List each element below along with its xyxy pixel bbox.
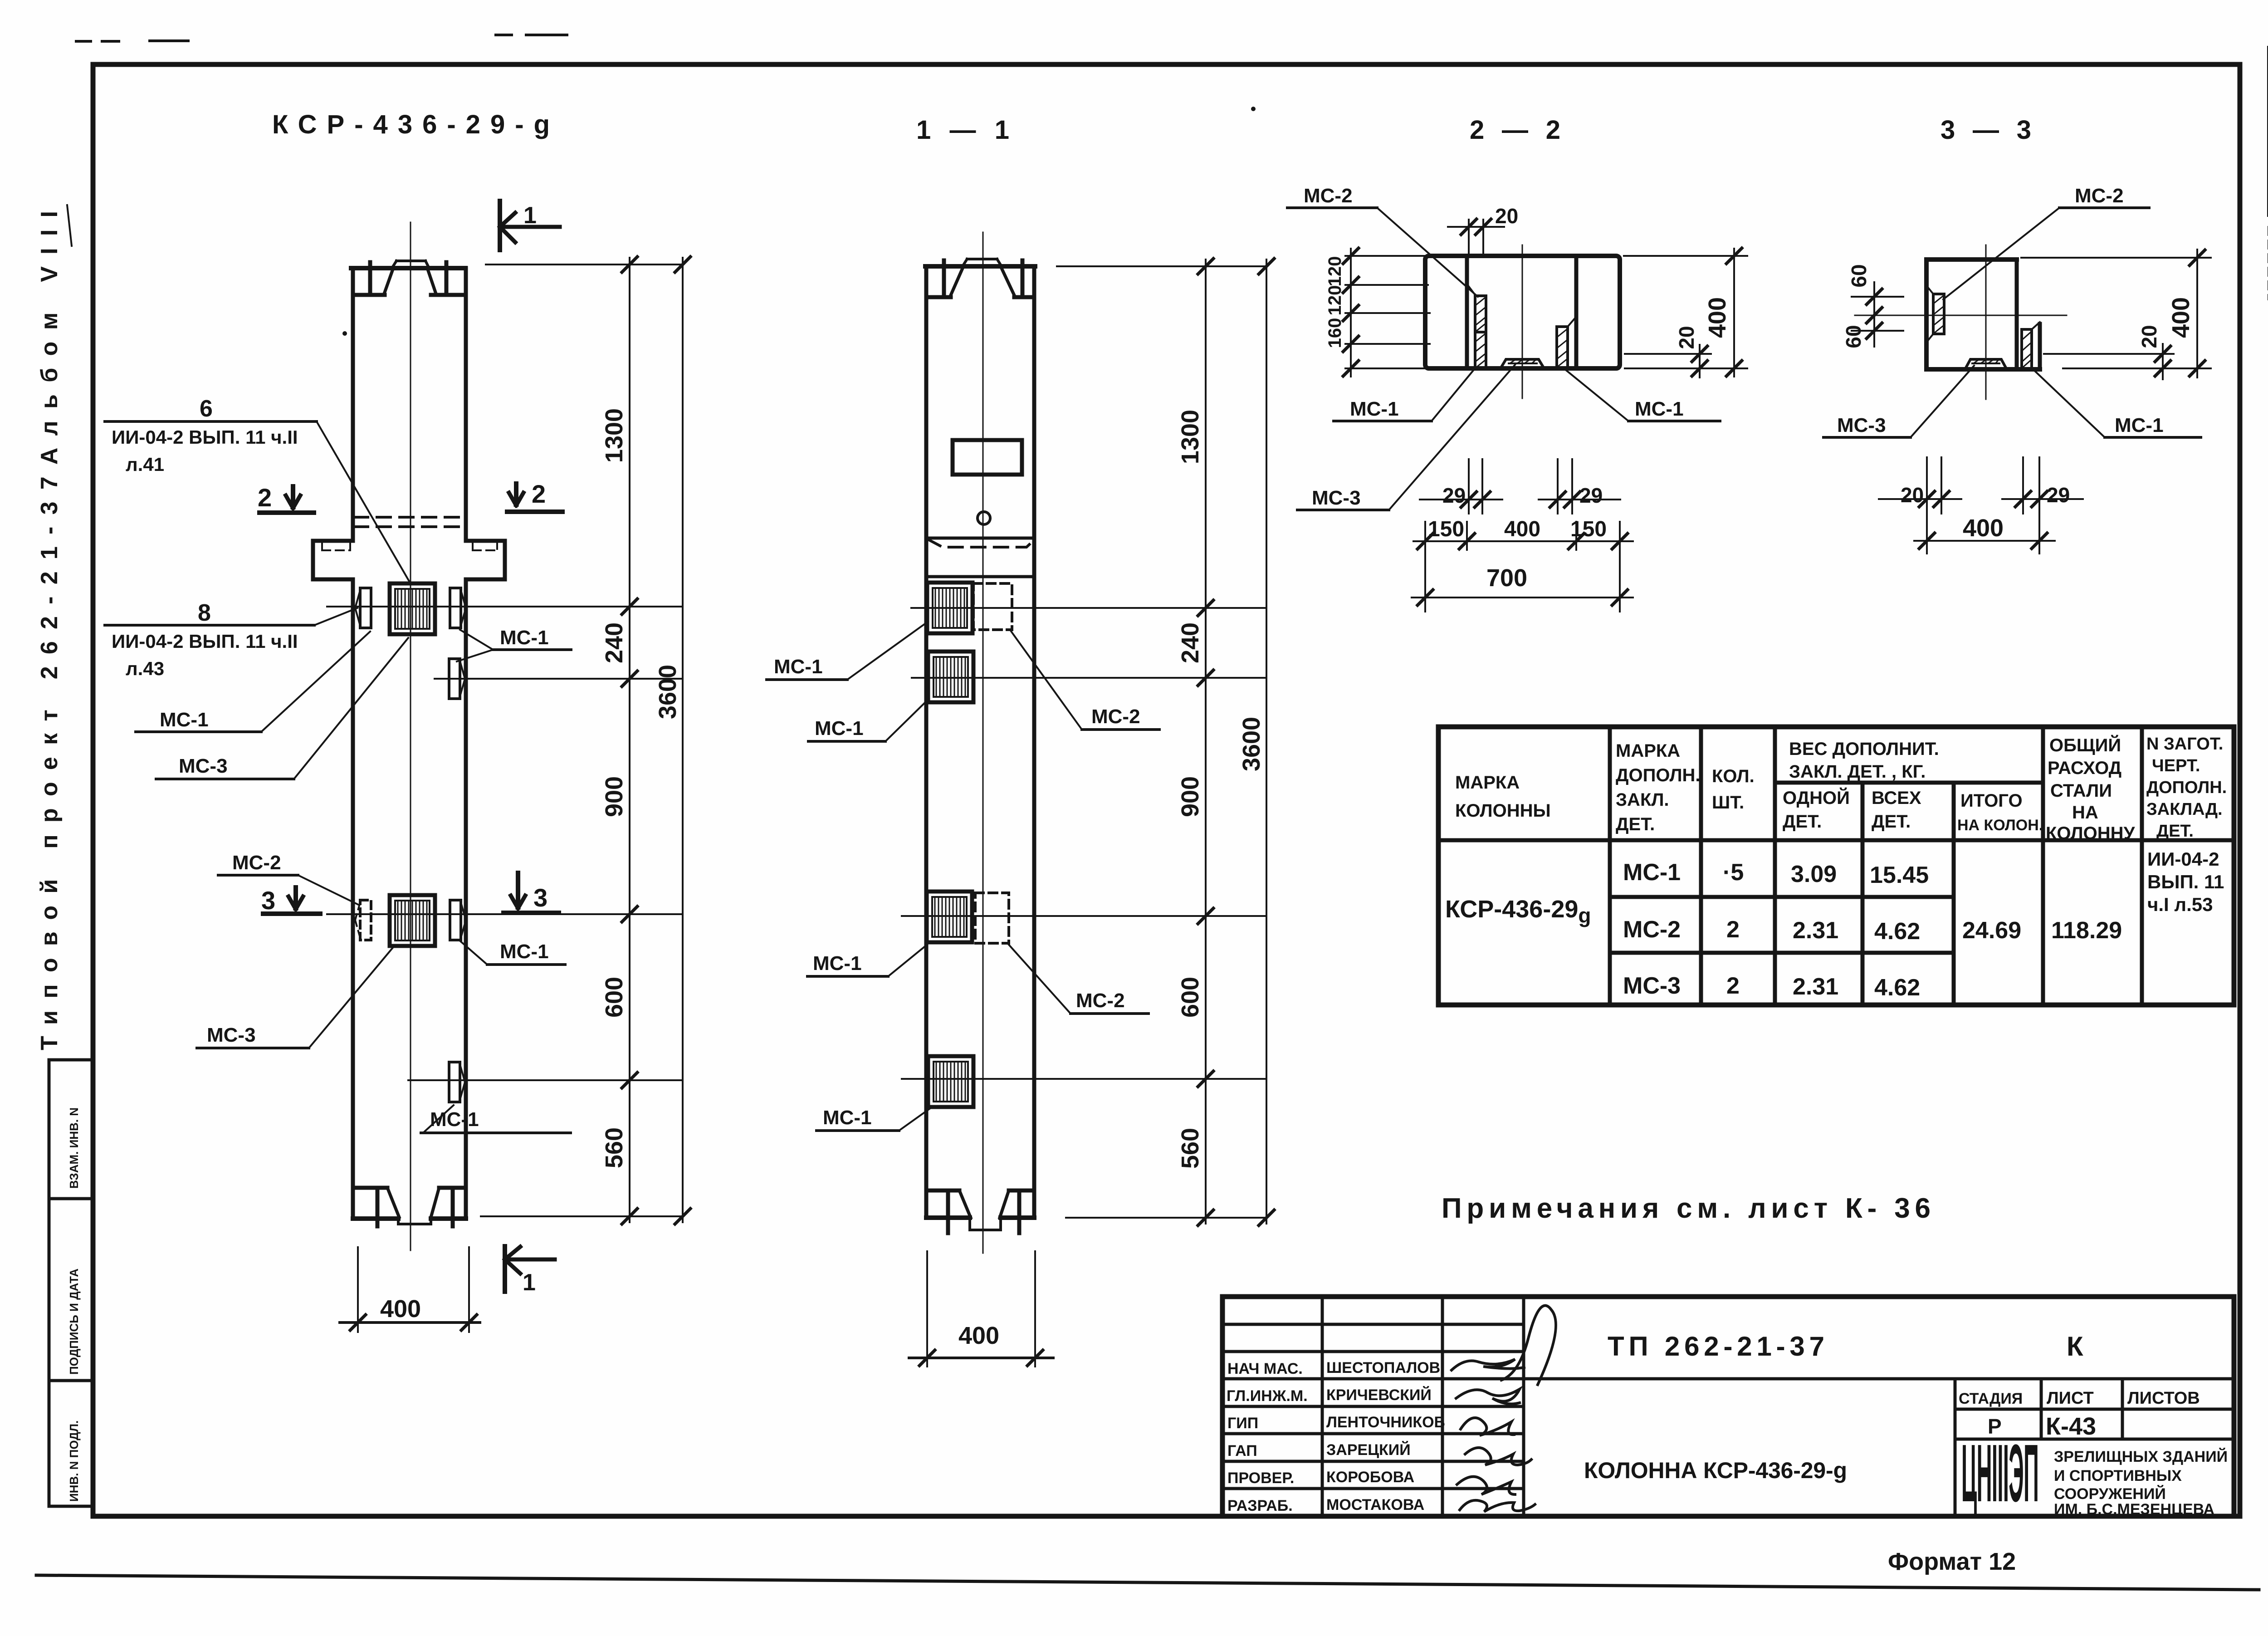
- svg-text:3: 3: [261, 886, 275, 915]
- dimension chain line column 1: [629, 258, 631, 1222]
- svg-text:МАРКА: МАРКА: [1455, 773, 1520, 793]
- svg-text:2: 2: [1726, 973, 1740, 999]
- title block logo ЦНИИЭП: [1961, 1427, 2038, 1518]
- hidden plate МС-2 dashed lower: [975, 893, 1009, 943]
- svg-text:МС-1: МС-1: [815, 717, 864, 740]
- svg-text:ПРОВЕР.: ПРОВЕР.: [1227, 1469, 1294, 1487]
- svg-text:400: 400: [2167, 297, 2195, 338]
- svg-text:КОЛОННУ: КОЛОННУ: [2046, 823, 2135, 843]
- extension line bottom: [481, 1215, 683, 1217]
- svg-text:·5: ·5: [1723, 859, 1744, 886]
- svg-text:ЗРЕЛИЩНЫХ ЗДАНИЙ: ЗРЕЛИЩНЫХ ЗДАНИЙ: [2054, 1448, 2228, 1465]
- dimension 400 bottom view 1-1: [909, 1251, 1053, 1367]
- svg-text:60: 60: [1847, 264, 1871, 287]
- svg-text:ИИ-04-2 ВЫП. 11 ч.II: ИИ-04-2 ВЫП. 11 ч.II: [112, 426, 298, 448]
- svg-text:1 — 1: 1 — 1: [916, 115, 1009, 145]
- label МС-2 section 3-3: [1943, 185, 2149, 299]
- svg-text:ИНВ. N ПОДЛ.: ИНВ. N ПОДЛ.: [67, 1420, 81, 1502]
- title block signatures: [1452, 1306, 1556, 1512]
- svg-text:ЗАКЛАД.: ЗАКЛАД.: [2146, 800, 2223, 819]
- embedded plate МС-3 centre lower: [390, 895, 435, 946]
- hidden tray dashed: [928, 539, 1035, 547]
- svg-text:150: 150: [1428, 517, 1464, 541]
- scan speck col1: [342, 331, 347, 336]
- svg-text:ДЕТ.: ДЕТ.: [1783, 812, 1822, 832]
- svg-text:400: 400: [380, 1295, 421, 1323]
- section 2-2 dimension 150 400 150: [1413, 517, 1633, 612]
- svg-text:МС-2: МС-2: [232, 852, 281, 874]
- section marker 3 right: [503, 873, 559, 913]
- level line 240 bottom view 1-1: [912, 677, 1266, 679]
- svg-text:400: 400: [1963, 514, 2004, 542]
- section 3-3 centre axis horizontal: [1855, 315, 2067, 316]
- svg-text:ШТ.: ШТ.: [1712, 793, 1744, 813]
- scan speck top middle: [1251, 107, 1256, 111]
- section marker 1 top: [500, 201, 560, 250]
- right console hidden pocket: [473, 541, 497, 550]
- svg-text:1: 1: [523, 202, 537, 229]
- section 3-3 dimension 400 right: [2021, 250, 2211, 377]
- level line 600: [408, 1079, 683, 1081]
- svg-text:ИМ. Б.С.МЕЗЕНЦЕВА: ИМ. Б.С.МЕЗЕНЦЕВА: [2054, 1501, 2214, 1518]
- label МС-3 section 3-3: [1823, 366, 1974, 437]
- svg-text:МС-1: МС-1: [1623, 859, 1681, 886]
- label МС-1 section 3-3: [2033, 369, 2201, 437]
- svg-text:ДЕТ.: ДЕТ.: [1616, 814, 1655, 834]
- svg-text:МС-3: МС-3: [207, 1024, 256, 1046]
- svg-text:МС-1: МС-1: [774, 656, 823, 678]
- svg-text:15.45: 15.45: [1870, 862, 1929, 888]
- svg-text:КОЛОННА КСР-436-29-g: КОЛОННА КСР-436-29-g: [1584, 1458, 1847, 1483]
- bracket МС-1 right lower: [449, 659, 465, 699]
- lifting hole circle: [978, 512, 990, 524]
- svg-text:КОРОБОВА: КОРОБОВА: [1326, 1469, 1414, 1486]
- left console: [313, 541, 353, 579]
- title block grid: [1222, 1297, 2234, 1516]
- svg-text:ТП 262-21-37: ТП 262-21-37: [1608, 1331, 1824, 1362]
- level line 240 bottom: [435, 678, 683, 680]
- svg-text:НА: НА: [2072, 803, 2098, 823]
- svg-text:МС-2: МС-2: [1091, 705, 1140, 728]
- label МС-3 section 2-2: [1297, 365, 1515, 510]
- svg-text:МС-1: МС-1: [1350, 398, 1399, 420]
- hidden joint dashed lines: [354, 516, 466, 519]
- svg-text:ЛИСТОВ: ЛИСТОВ: [2127, 1389, 2200, 1408]
- section 3-3 centre axis vertical: [1985, 245, 1987, 399]
- view 1-1 top anchor pins: [942, 260, 946, 296]
- svg-text:400: 400: [1704, 297, 1731, 338]
- svg-text:700: 700: [1486, 564, 1527, 592]
- bottom anchor pins: [376, 1189, 380, 1226]
- label МС-2 section 2-2: [1287, 185, 1478, 297]
- svg-text:ЛЕНТОЧНИКОВ: ЛЕНТОЧНИКОВ: [1326, 1414, 1445, 1431]
- svg-text:20: 20: [1675, 326, 1698, 349]
- svg-text:120: 120: [1325, 285, 1345, 316]
- svg-text:СТАЛИ: СТАЛИ: [2050, 781, 2112, 801]
- svg-text:ИИ-04-2 ВЫП. 11 ч.II: ИИ-04-2 ВЫП. 11 ч.II: [112, 631, 298, 652]
- section 2-2 dimension 700: [1412, 564, 1633, 605]
- section 2-2 body: [1425, 256, 1620, 368]
- label МС-1 column 1 at 600 level: [421, 1105, 571, 1133]
- label МС-1 right dual column 1: [457, 627, 571, 661]
- svg-text:2.31: 2.31: [1793, 917, 1838, 944]
- svg-text:МС-3: МС-3: [1623, 973, 1681, 999]
- svg-text:РАСХОД: РАСХОД: [2048, 758, 2121, 778]
- extension line top view 1-1: [1057, 265, 1266, 267]
- svg-text:ч.I л.53: ч.I л.53: [2147, 894, 2213, 915]
- svg-text:3600: 3600: [1238, 717, 1265, 771]
- svg-text:ДОПОЛН.: ДОПОЛН.: [1616, 765, 1701, 785]
- section 2-2 dimension 20 right low: [1625, 326, 1711, 377]
- svg-text:118.29: 118.29: [2051, 917, 2122, 944]
- level line 240 top: [327, 606, 683, 607]
- svg-text:560: 560: [1177, 1128, 1204, 1169]
- svg-text:ЗАКЛ.: ЗАКЛ.: [1616, 790, 1669, 810]
- level line 900 view 1-1: [902, 915, 1266, 917]
- svg-text:ЧЕРТ.: ЧЕРТ.: [2152, 756, 2200, 775]
- svg-text:МС-1: МС-1: [813, 952, 862, 975]
- svg-text:Формат 12: Формат 12: [1888, 1548, 2016, 1575]
- svg-text:К: К: [2067, 1331, 2083, 1362]
- section 2-2 dimension 20 top: [1448, 204, 1518, 253]
- svg-text:3 — 3: 3 — 3: [1941, 115, 2031, 145]
- svg-text:20: 20: [1495, 204, 1518, 228]
- svg-text:ВСЕХ: ВСЕХ: [1872, 788, 1921, 808]
- svg-text:3.09: 3.09: [1791, 861, 1837, 887]
- svg-text:400: 400: [1504, 517, 1540, 541]
- svg-text:ЛИСТ: ЛИСТ: [2047, 1389, 2094, 1408]
- svg-text:600: 600: [601, 977, 628, 1018]
- svg-text:МС-3: МС-3: [1312, 487, 1361, 509]
- bracket МС-1 right at 600 level: [449, 1062, 465, 1102]
- svg-text:ИИ-04-2: ИИ-04-2: [2147, 848, 2219, 870]
- svg-text:ДОПОЛН.: ДОПОЛН.: [2146, 778, 2227, 797]
- left margin box Инв. N подл.: [49, 1381, 94, 1506]
- specification table grid: [1438, 727, 2234, 1005]
- svg-text:24.69: 24.69: [1962, 917, 2021, 944]
- lifting opening rectangle: [953, 440, 1022, 475]
- svg-text:МС-1: МС-1: [500, 627, 549, 649]
- svg-text:3: 3: [533, 883, 547, 912]
- section 2-2 dimension 29 29 below: [1420, 459, 1620, 514]
- svg-text:2 — 2: 2 — 2: [1470, 115, 1560, 145]
- extension line top: [486, 264, 683, 265]
- svg-text:МС-1: МС-1: [160, 709, 209, 731]
- dimension 400 bottom of column 1: [340, 1247, 480, 1332]
- label МС-3 left column 1: [156, 638, 408, 779]
- section marker 2 left: [258, 483, 314, 513]
- svg-text:160: 160: [1325, 318, 1345, 348]
- svg-text:ШЕСТОПАЛОВ: ШЕСТОПАЛОВ: [1326, 1359, 1440, 1376]
- svg-text:И СПОРТИВНЫХ: И СПОРТИВНЫХ: [2054, 1467, 2182, 1484]
- svg-text:1: 1: [523, 1269, 536, 1296]
- label МС-1 right column 1 at section 3: [459, 940, 565, 965]
- svg-text:2: 2: [532, 480, 546, 508]
- label МС-3 lower column 1: [197, 948, 392, 1048]
- label МС-1 view 1-1 first: [767, 622, 928, 680]
- svg-text:л.43: л.43: [126, 658, 164, 679]
- left margin box Подпись и дата: [49, 1199, 94, 1381]
- section 3-3 plate МС-3 bottom hatched: [1965, 359, 2007, 369]
- section marker 2 right: [507, 480, 562, 512]
- leader note 6 ИИ-04-2: [105, 396, 411, 584]
- svg-text:К-43: К-43: [2046, 1413, 2096, 1440]
- bracket МС-1 right of console level: [450, 588, 466, 628]
- svg-text:РАЗРАБ.: РАЗРАБ.: [1227, 1497, 1293, 1514]
- svg-text:29: 29: [2047, 483, 2070, 507]
- svg-text:560: 560: [601, 1127, 628, 1168]
- column centre axis: [410, 222, 411, 1250]
- svg-text:29: 29: [1442, 484, 1466, 507]
- svg-text:20: 20: [1901, 483, 1924, 507]
- svg-text:ЗАКЛ. ДЕТ. , КГ.: ЗАКЛ. ДЕТ. , КГ.: [1789, 762, 1926, 782]
- top margin dashes middle: [496, 34, 512, 36]
- overall chain line 3600 column 1: [682, 258, 684, 1222]
- section 2-2 plate МС-3 bottom hatched: [1501, 359, 1544, 368]
- column top fork joint: [351, 261, 465, 295]
- section 3-3 plate МС-1 right hatched: [2022, 322, 2040, 368]
- label МС-1 view 1-1 fourth: [816, 1107, 931, 1131]
- svg-text:МС-1: МС-1: [2115, 414, 2164, 436]
- extension line bottom view 1-1: [1066, 1217, 1266, 1219]
- svg-text:ВЕС ДОПОЛНИТ.: ВЕС ДОПОЛНИТ.: [1789, 739, 1939, 759]
- label МС-1 left column 1: [136, 632, 370, 732]
- svg-text:МС-2: МС-2: [1076, 989, 1125, 1012]
- section 2-2 dimension 400 right: [1624, 248, 1747, 377]
- level line 900: [327, 913, 683, 915]
- svg-text:2: 2: [258, 483, 272, 512]
- svg-text:60: 60: [1842, 325, 1865, 348]
- svg-text:ДЕТ.: ДЕТ.: [2156, 822, 2194, 841]
- view 1-1 top fork joint: [925, 259, 1035, 297]
- svg-text:МС-2: МС-2: [2075, 185, 2124, 207]
- view 1-1 bottom anchor pins: [946, 1191, 950, 1233]
- column bottom fork joint: [353, 1188, 466, 1224]
- leader note 8 ИИ-04-2: [105, 600, 357, 679]
- svg-text:ЦНIIIЭП: ЦНIIIЭП: [1961, 1427, 2038, 1518]
- section 3-3 left dimension 60 60: [1842, 264, 1903, 348]
- svg-text:ЗАРЕЦКИЙ: ЗАРЕЦКИЙ: [1326, 1441, 1411, 1459]
- overall chain line 3600 view 1-1: [1266, 260, 1267, 1224]
- level line 600 view 1-1: [902, 1078, 1266, 1080]
- section 2-2 plate МС-2 left hatched: [1467, 284, 1486, 332]
- section marker 1 bottom: [505, 1246, 555, 1296]
- svg-text:КРИЧЕВСКИЙ: КРИЧЕВСКИЙ: [1326, 1386, 1432, 1404]
- embedded plate МС-1 view 1-1 second: [928, 651, 973, 702]
- svg-text:СТАДИЯ: СТАДИЯ: [1959, 1390, 2023, 1407]
- svg-text:ВЫП. 11: ВЫП. 11: [2147, 871, 2224, 892]
- chain ticks column 1: [622, 257, 690, 1224]
- view 1-1 bottom fork joint: [926, 1190, 1034, 1230]
- svg-text:МС-3: МС-3: [1837, 414, 1886, 436]
- svg-text:МС-1: МС-1: [823, 1107, 872, 1129]
- section 3-3 dimension 400 below: [1914, 514, 2055, 549]
- dashed bracket МС-2 left at section 3: [355, 900, 371, 940]
- svg-text:4.62: 4.62: [1874, 918, 1920, 945]
- left console hidden pocket: [322, 541, 350, 550]
- view 1-1 centre axis: [982, 232, 984, 1253]
- hidden plate МС-2 dashed upper: [973, 583, 1012, 630]
- svg-text:л.41: л.41: [126, 454, 164, 475]
- label МС-1 view 1-1 second: [808, 699, 929, 741]
- svg-text:КОЛ.: КОЛ.: [1712, 766, 1755, 786]
- left margin box Взам. инв. N: [49, 1060, 94, 1199]
- svg-text:N ЗАГОТ.: N ЗАГОТ.: [2146, 735, 2223, 754]
- section 2-2 left dimension chain 120 120 160: [1325, 248, 1430, 377]
- svg-text:400: 400: [958, 1322, 999, 1349]
- svg-text:Примечания см. лист К- 36: Примечания см. лист К- 36: [1442, 1193, 1931, 1224]
- right console: [466, 541, 505, 579]
- svg-text:МС-2: МС-2: [1304, 185, 1353, 207]
- svg-text:900: 900: [601, 776, 628, 817]
- svg-text:3600: 3600: [654, 665, 681, 719]
- column view 1-1 outline: [926, 266, 1034, 1218]
- svg-text:900: 900: [1177, 776, 1204, 817]
- svg-text:ОБЩИЙ: ОБЩИЙ: [2049, 735, 2121, 755]
- label МС-1 view 1-1 third: [807, 945, 927, 976]
- svg-text:ДЕТ.: ДЕТ.: [1872, 812, 1911, 832]
- label МС-2 column 1: [218, 852, 358, 905]
- bracket МС-1 right at section 3: [450, 900, 466, 940]
- svg-text:8: 8: [198, 600, 211, 626]
- zone line view 1-1: [926, 575, 1034, 578]
- svg-text:НА КОЛОН.: НА КОЛОН.: [1957, 817, 2043, 834]
- svg-text:ГИП: ГИП: [1227, 1415, 1258, 1432]
- section 3-3 plate МС-2 left hatched: [1927, 287, 1944, 341]
- level line 240 top view 1-1: [911, 607, 1266, 609]
- svg-text:ГАП: ГАП: [1227, 1442, 1257, 1460]
- svg-text:ИТОГО: ИТОГО: [1960, 791, 2023, 811]
- embedded plate МС-1 view 1-1 fourth: [928, 1056, 973, 1107]
- svg-text:МС-2: МС-2: [1623, 916, 1681, 943]
- section 2-2 plate МС-1 right hatched: [1557, 317, 1576, 368]
- bottom sheet edge line: [36, 1575, 2259, 1590]
- column КСР-436-29-g outline: [353, 268, 466, 1219]
- svg-text:1300: 1300: [601, 408, 628, 463]
- svg-text:4.62: 4.62: [1874, 975, 1920, 1001]
- VIII underline tick: [67, 205, 72, 246]
- label МС-2 view 1-1 lower: [1008, 944, 1149, 1014]
- top margin dashes left: [76, 40, 91, 43]
- svg-text:ОДНОЙ: ОДНОЙ: [1783, 787, 1850, 808]
- svg-text:СООРУЖЕНИЙ: СООРУЖЕНИЙ: [2054, 1485, 2166, 1503]
- torn page edge line right: [2267, 47, 2268, 216]
- section marker 3 left: [261, 886, 320, 915]
- svg-text:МС-3: МС-3: [179, 755, 228, 777]
- svg-text:НАЧ МАС.: НАЧ МАС.: [1227, 1360, 1303, 1377]
- embedded plate МС-1 view 1-1 third: [927, 891, 972, 942]
- svg-text:6: 6: [200, 396, 213, 422]
- svg-text:ГЛ.ИНЖ.М.: ГЛ.ИНЖ.М.: [1227, 1387, 1308, 1405]
- chain ticks view 1-1: [1198, 259, 1274, 1225]
- svg-text:КСР-436-29g: КСР-436-29g: [1445, 896, 1591, 927]
- svg-text:150: 150: [1570, 517, 1607, 541]
- dimension chain line view 1-1: [1205, 260, 1207, 1224]
- svg-text:29: 29: [1579, 484, 1603, 507]
- embedded plate МС-1 view 1-1 upper: [927, 583, 973, 633]
- section 3-3 dimension 20 right: [2044, 325, 2174, 379]
- svg-text:2.31: 2.31: [1793, 974, 1838, 1000]
- top anchor pins: [368, 262, 372, 294]
- section 3-3 body: [1926, 260, 2040, 369]
- svg-text:20: 20: [2137, 325, 2161, 348]
- label МС-1 right section 2-2: [1565, 369, 1720, 421]
- svg-text:2: 2: [1726, 916, 1740, 943]
- svg-text:МС-1: МС-1: [1635, 398, 1684, 420]
- label МС-2 view 1-1 upper: [1011, 631, 1159, 730]
- svg-text:МС-1: МС-1: [500, 940, 549, 963]
- svg-text:240: 240: [1177, 622, 1204, 663]
- svg-text:1300: 1300: [1177, 410, 1204, 464]
- section 3-3 dimension 20 29 below: [1879, 457, 2083, 553]
- label МС-1 left section 2-2: [1334, 369, 1474, 421]
- svg-text:600: 600: [1177, 977, 1204, 1018]
- joint line view 1-1: [926, 537, 1034, 540]
- svg-text:КОЛОННЫ: КОЛОННЫ: [1455, 801, 1551, 821]
- svg-text:ВЗАМ. ИНВ. N: ВЗАМ. ИНВ. N: [67, 1107, 81, 1189]
- embedded plate МС-3 centre upper: [390, 583, 435, 634]
- bracket МС-1 left of console level: [355, 588, 371, 628]
- svg-text:240: 240: [601, 622, 628, 663]
- svg-text:МОСТАКОВА: МОСТАКОВА: [1326, 1496, 1424, 1514]
- svg-text:120: 120: [1325, 256, 1345, 287]
- svg-text:ПОДПИСЬ И ДАТА: ПОДПИСЬ И ДАТА: [67, 1269, 81, 1375]
- svg-text:МАРКА: МАРКА: [1616, 741, 1680, 761]
- section 2-2 plate МС-1 left hatched: [1475, 332, 1486, 368]
- section 2-2 centre axis: [1522, 245, 1523, 398]
